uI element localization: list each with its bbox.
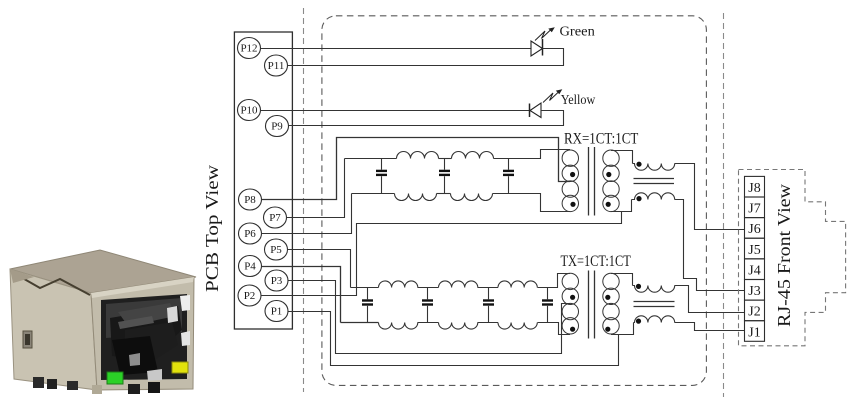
big dashed module outline box: [322, 16, 707, 386]
TX top wire: [478, 287, 499, 289]
wire CM1 top to J6: [675, 164, 745, 230]
transformer T1 core: [589, 147, 595, 216]
plug body dark shapes: [110, 306, 182, 360]
pin P8: [239, 189, 262, 210]
pin P7: [264, 207, 287, 228]
CM1 polarity dots: [636, 162, 641, 202]
TX bottom wire right + jog down to T2: [538, 323, 571, 335]
LED D2 yellow triangle: [530, 103, 541, 118]
wire T2 secondary bottom lead to choke CM2: [611, 323, 634, 335]
RJ45 pin box J4: [745, 259, 765, 280]
pin P10: [238, 100, 261, 121]
TX bottom wire: [478, 322, 499, 324]
bottom pins: [33, 377, 44, 388]
inductor TX bottom L9: [439, 323, 478, 330]
wire P8 to RX center tap (bypass above filter): [262, 138, 571, 200]
LED D1 green triangle: [531, 41, 543, 56]
T1 polarity dots: [570, 172, 611, 207]
LED D1 emission zigzag arrow: [535, 27, 555, 40]
choke CM2 bottom winding: [634, 316, 675, 323]
svg-text:P8: P8: [244, 194, 256, 206]
pin P1: [265, 301, 288, 322]
capacitor TX C5: [422, 288, 433, 323]
svg-text:RJ-45 Front View: RJ-45 Front View: [774, 184, 794, 327]
TX filter top wire left: [351, 287, 379, 289]
svg-text:P7: P7: [269, 212, 281, 224]
jack body top face: [10, 250, 196, 293]
wire P1 to TX secondary bottom node: [288, 312, 619, 366]
wire green LED cathode loop back to P11: [288, 49, 564, 66]
wire yellow LED anode loop back to P9: [289, 111, 564, 126]
svg-text:J8: J8: [748, 181, 760, 196]
choke CM1 top winding: [633, 164, 675, 171]
jack body left side face: [10, 269, 97, 390]
RJ45 pin box J3: [745, 280, 765, 301]
wire P10 to yellow LED cathode: [261, 110, 530, 112]
svg-text:P10: P10: [240, 105, 258, 117]
TX top wire right + jog up to T2: [538, 274, 571, 288]
wire T2 secondary top to choke CM2: [611, 274, 633, 286]
wire P3 to TX center tap (bypass below filter): [288, 281, 570, 354]
svg-text:J1: J1: [748, 325, 760, 340]
inductor RX bottom L4: [451, 194, 493, 201]
pin P3: [265, 270, 288, 291]
wire T1 secondary bottom lead: [611, 200, 632, 212]
glint top-right 2: [167, 306, 178, 323]
svg-text:Green: Green: [560, 24, 596, 39]
LED D2 yellow cathode bar: [529, 104, 531, 118]
RJ45 pin box J2: [745, 300, 765, 321]
green LED: [107, 372, 123, 384]
pin P5: [265, 239, 288, 260]
capacitor TX C4: [362, 288, 373, 323]
RJ45 front-view dashed profile outline: [739, 170, 846, 346]
yellow LED: [172, 362, 188, 373]
capacitor TX C7: [542, 288, 553, 323]
RX filter bottom wire mid: [437, 193, 451, 195]
wire P6 riser to RX filter bottom: [262, 194, 352, 234]
svg-text:P11: P11: [268, 60, 285, 72]
pin P12: [238, 38, 261, 59]
svg-text:Yellow: Yellow: [561, 92, 596, 107]
svg-text:PCB Top View: PCB Top View: [202, 165, 222, 292]
RJ45 pin box J8: [745, 176, 765, 197]
transformer T2 TX secondary winding: [603, 273, 619, 334]
RX filter top wire left: [345, 158, 397, 160]
RJ45 pin box J1: [745, 321, 765, 342]
pin P9: [266, 116, 289, 137]
svg-text:J6: J6: [748, 222, 760, 237]
RX filter top wire mid: [439, 158, 452, 160]
LED D2 emission zigzag arrow: [543, 89, 562, 102]
svg-text:P12: P12: [240, 43, 257, 55]
wire CM1 bottom to J3: [675, 200, 745, 291]
glint bottom contacts: [147, 369, 162, 381]
svg-text:J2: J2: [748, 305, 760, 320]
wire P12 to green LED anode: [261, 48, 532, 50]
side hole on left face: [23, 331, 32, 348]
port interior mid grey wall: [106, 298, 182, 338]
pin P11: [265, 55, 288, 76]
svg-text:P5: P5: [270, 244, 282, 256]
capacitor RX C2: [439, 159, 450, 194]
capacitor RX C1: [376, 159, 387, 194]
pin P2: [238, 285, 261, 306]
choke CM1 core: [634, 179, 675, 184]
RJ45 pin box J6: [745, 218, 765, 239]
wire P4 riser to TX filter bottom: [262, 267, 341, 323]
RX filter bottom wire right + jog down to transformer: [493, 194, 571, 212]
choke CM2 core: [634, 302, 675, 307]
wire P2 to RX secondary bottom node: [261, 212, 622, 296]
inductor TX top L6: [439, 281, 478, 288]
TX top wire: [418, 287, 439, 289]
transformer T2 core: [589, 271, 595, 339]
inductor TX bottom L8: [379, 323, 418, 330]
dashed separator line (left, PCB side): [303, 8, 305, 392]
wire P7 riser to RX filter top: [287, 159, 345, 218]
svg-text:J7: J7: [748, 202, 760, 217]
dashed separator line (right, RJ45 side): [723, 13, 725, 397]
wire CM2 top to J2: [675, 286, 745, 313]
svg-text:P2: P2: [244, 290, 256, 302]
transformer T2 TX primary winding: [562, 273, 578, 334]
transformer T1 RX secondary winding: [603, 150, 619, 212]
svg-text:RX=1CT:1CT: RX=1CT:1CT: [564, 131, 638, 148]
pin P6: [239, 223, 262, 244]
front face top bevel: [91, 277, 194, 298]
inductor TX bottom L10: [498, 323, 537, 330]
RX filter bottom wire left: [352, 193, 395, 195]
shield seam notch on left face: [12, 272, 90, 295]
port opening (dark): [101, 294, 187, 380]
svg-text:P1: P1: [271, 306, 283, 318]
CM2 polarity dots: [636, 284, 641, 324]
svg-text:P4: P4: [244, 261, 256, 273]
plug latch bar: [118, 316, 154, 329]
choke CM2 top winding: [633, 286, 675, 293]
inductor RX bottom L3: [395, 194, 437, 201]
jack body front face frame: [91, 277, 194, 390]
svg-text:J4: J4: [748, 264, 760, 279]
wire P5 riser to TX filter top: [288, 250, 351, 288]
inductor TX top L5: [379, 281, 418, 288]
glint mid-right: [181, 331, 190, 346]
svg-text:P3: P3: [271, 275, 283, 287]
glint top-right 1: [180, 295, 190, 311]
choke CM1 bottom winding: [632, 193, 675, 200]
T2 polarity dots: [570, 295, 610, 332]
inductor RX top L2: [452, 152, 494, 159]
TX bottom wire: [418, 322, 439, 324]
inductor RX top L1: [397, 152, 439, 159]
RJ45 pin box J7: [745, 197, 765, 218]
transformer T1 RX primary winding: [562, 150, 578, 212]
wire CM2 bottom to J1: [675, 323, 745, 331]
TX filter bottom wire left: [341, 322, 379, 324]
wire T1 secondary top to choke CM1: [611, 151, 633, 164]
RJ45 pin box J5: [745, 238, 765, 259]
svg-text:TX=1CT:1CT: TX=1CT:1CT: [561, 253, 631, 270]
inductor TX top L7: [498, 281, 537, 288]
capacitor TX C6: [483, 288, 494, 323]
svg-text:J3: J3: [748, 284, 760, 299]
PCB pin header box: [234, 32, 292, 329]
LED D1 cathode bar: [542, 39, 544, 56]
svg-text:P9: P9: [271, 121, 283, 133]
svg-text:J5: J5: [748, 243, 760, 258]
pin P4: [239, 256, 262, 277]
svg-text:P6: P6: [244, 228, 256, 240]
top-left fold triangle: [10, 269, 34, 283]
capacitor RX C3: [503, 159, 514, 194]
RX filter top wire right + jog up to transformer: [494, 150, 571, 159]
